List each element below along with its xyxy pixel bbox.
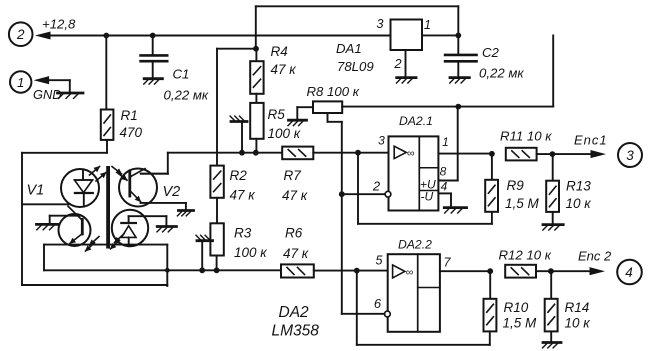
svg-text:78L09: 78L09 [337,59,374,74]
svg-text:R11 10 к: R11 10 к [500,129,552,144]
svg-text:DA2.1: DA2.1 [399,114,433,128]
svg-text:-U: -U [421,190,434,204]
svg-text:3: 3 [378,134,385,148]
svg-text:47 к: 47 к [230,188,256,203]
svg-text:GND: GND [33,87,61,102]
svg-text:2: 2 [372,179,381,194]
svg-text:0,22 мк: 0,22 мк [479,66,524,81]
svg-text:C1: C1 [173,67,190,82]
svg-text:1: 1 [17,75,24,90]
svg-text:DA2: DA2 [279,304,310,321]
svg-text:R13: R13 [566,179,591,194]
svg-text:5: 5 [376,254,383,268]
svg-text:100 к: 100 к [268,126,301,141]
svg-text:47 к: 47 к [271,62,297,77]
svg-text:∞: ∞ [406,267,414,279]
svg-text:47 к: 47 к [282,188,308,203]
svg-text:Enc 2: Enc 2 [578,249,612,264]
svg-text:1,5 M: 1,5 M [503,316,538,331]
svg-text:3: 3 [377,17,384,31]
svg-text:7: 7 [444,256,452,270]
svg-text:R5: R5 [268,107,286,122]
svg-text:10 к: 10 к [565,316,591,331]
svg-text:100 к: 100 к [234,245,267,260]
svg-text:R3: R3 [234,226,252,241]
svg-text:2: 2 [393,56,402,71]
svg-text:4: 4 [625,265,633,280]
svg-text:V1: V1 [27,183,45,199]
svg-text:R12 10 к: R12 10 к [499,248,552,263]
svg-text:0,22 мк: 0,22 мк [164,88,209,103]
svg-text:R14: R14 [565,300,590,315]
svg-text:DA1: DA1 [336,41,362,56]
svg-text:R10: R10 [504,300,529,315]
svg-text:R4: R4 [271,44,288,59]
svg-text:V2: V2 [163,184,181,200]
svg-text:Enc1: Enc1 [574,133,608,148]
svg-text:R7: R7 [284,168,302,183]
svg-text:DA2.2: DA2.2 [398,238,432,252]
svg-text:R6: R6 [285,226,303,241]
svg-text:C2: C2 [482,45,500,60]
svg-text:1: 1 [424,18,431,32]
svg-text:R1: R1 [121,108,138,123]
svg-text:47 к: 47 к [283,246,309,261]
svg-text:3: 3 [626,148,634,163]
svg-text:6: 6 [374,296,382,311]
svg-text:4: 4 [441,180,448,194]
svg-text:1: 1 [442,135,449,149]
svg-text:8: 8 [440,165,447,179]
svg-text:R8 100 к: R8 100 к [307,84,360,99]
svg-text:10 к: 10 к [566,196,592,211]
svg-text:+12,8: +12,8 [42,17,76,32]
svg-text:2: 2 [16,27,25,42]
svg-text:1,5 M: 1,5 M [505,196,540,211]
svg-text:470: 470 [120,125,143,140]
svg-text:∞: ∞ [407,148,415,160]
svg-text:LM358: LM358 [272,323,320,340]
svg-text:R2: R2 [230,168,248,183]
svg-text:R9: R9 [507,178,525,193]
